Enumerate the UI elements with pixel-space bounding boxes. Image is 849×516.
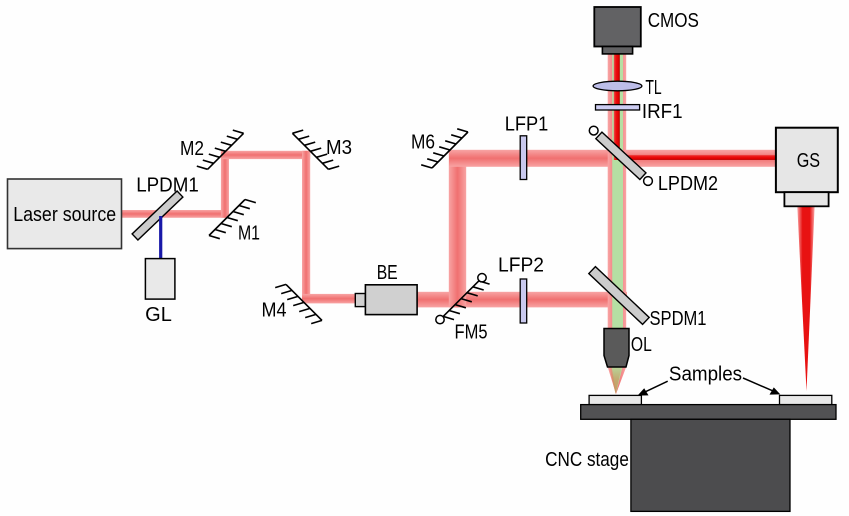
dichroic mirror LPDM1 <box>132 175 199 241</box>
filter LFP1 <box>505 114 549 180</box>
label Samples with arrows <box>638 364 781 396</box>
wire beam M3 to M4 <box>302 151 310 303</box>
svg-text:Laser source: Laser source <box>13 204 116 226</box>
wire green-tan cone below OL <box>608 367 627 394</box>
filter IRF1 <box>596 101 683 123</box>
dichroic mirror LPDM2 <box>589 126 718 195</box>
svg-text:LFP1: LFP1 <box>505 114 549 136</box>
svg-text:FM5: FM5 <box>455 322 488 344</box>
wire green beam vertical <box>612 54 623 329</box>
flip mirror FM5 <box>436 274 490 344</box>
wire beam M6 to GS <box>449 150 776 167</box>
wire beam M2 to M3 <box>221 151 310 159</box>
svg-text:LFP2: LFP2 <box>498 255 544 277</box>
svg-text:M4: M4 <box>262 300 287 322</box>
svg-text:CMOS: CMOS <box>648 10 699 32</box>
mirror M1 <box>209 200 260 245</box>
wire beam M1 to M2 <box>221 151 229 218</box>
wire beam laser to M1 <box>120 210 229 218</box>
svg-text:BE: BE <box>377 262 398 284</box>
wire beam M4 to BE <box>302 294 356 304</box>
tube lens TL <box>593 77 662 99</box>
objective lens OL <box>604 329 652 368</box>
svg-text:TL: TL <box>645 77 661 99</box>
dichroic mirror SPDM1 <box>589 267 707 330</box>
mirror M2 <box>180 130 244 169</box>
svg-text:CNC stage: CNC stage <box>545 449 629 471</box>
svg-text:M6: M6 <box>411 132 435 154</box>
mirror M3 <box>292 130 352 169</box>
svg-text:IRF1: IRF1 <box>642 101 683 123</box>
green laser GL box <box>145 259 175 326</box>
camera CMOS <box>594 7 699 54</box>
svg-text:M3: M3 <box>326 137 352 159</box>
svg-text:M1: M1 <box>238 223 260 245</box>
mirror M6 <box>411 129 468 168</box>
wire pink beam vertical CMOS bundle <box>608 54 627 329</box>
svg-text:GS: GS <box>797 150 820 172</box>
svg-text:SPDM1: SPDM1 <box>650 308 707 330</box>
mirror M4 <box>262 284 323 323</box>
wire red beam GS to LPDM2 <box>618 155 776 160</box>
wire red beam LPDM2 to CMOS <box>614 54 620 160</box>
CNC stage top platform <box>581 405 836 420</box>
sample slide left <box>589 395 641 404</box>
svg-text:OL: OL <box>631 334 652 356</box>
wire beam BE to SPDM1 <box>417 292 627 308</box>
svg-text:LPDM2: LPDM2 <box>658 173 718 195</box>
svg-text:LPDM1: LPDM1 <box>136 175 199 197</box>
svg-text:M2: M2 <box>180 138 204 160</box>
beam expander BE <box>355 262 417 315</box>
laser source box <box>8 179 122 249</box>
svg-text:GL: GL <box>145 304 172 326</box>
CNC stage pedestal <box>631 419 790 511</box>
filter LFP2 <box>498 255 544 324</box>
galvo scanner GS <box>776 128 838 207</box>
wire beam FM5 to M6 <box>449 150 466 307</box>
svg-text:Samples: Samples <box>669 364 742 386</box>
wire red cone GS to sample <box>797 207 814 392</box>
wire blue beam LPDM1 to GL <box>159 216 162 259</box>
sample slide right <box>780 395 832 404</box>
